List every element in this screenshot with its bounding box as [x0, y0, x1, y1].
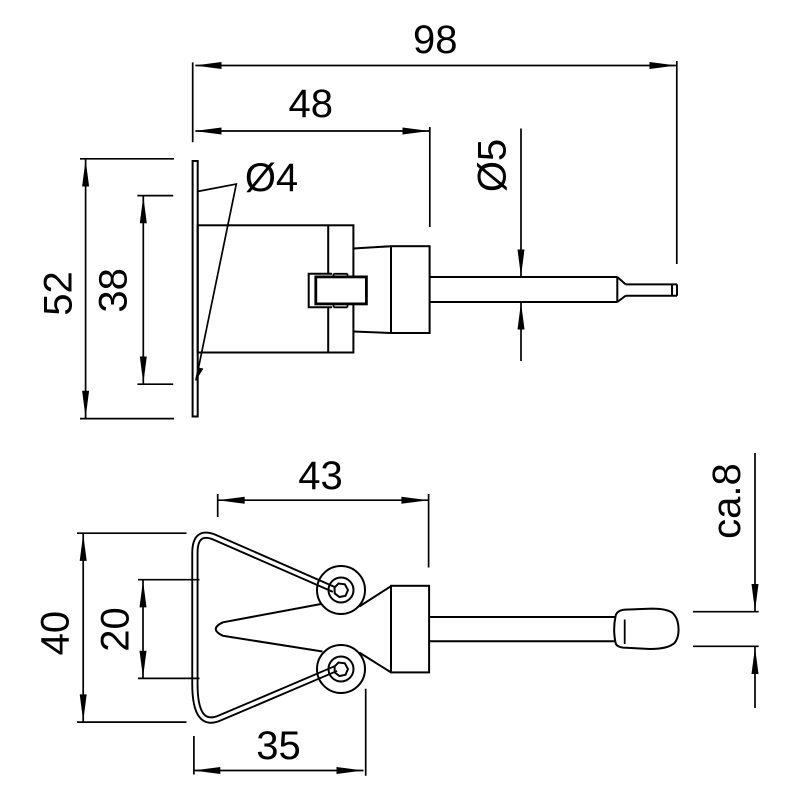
arrow leader dia4: [196, 367, 204, 380]
arrow dia5 up: [518, 303, 525, 330]
arrow 52 bottom: [82, 391, 89, 418]
lower eyelet: [317, 645, 365, 693]
dimension 35 ext left: [193, 736, 195, 775]
dimension 43 ext left: [217, 494, 219, 517]
arrow 40 bottom: [80, 694, 87, 721]
dimension 35 line: [193, 770, 363, 772]
dimension ca8 ext top: [693, 611, 759, 613]
dimension 38 line: [142, 196, 144, 385]
inner body line: [327, 225, 329, 352]
dimension ca8 line upper: [754, 453, 756, 611]
wire bail inner white: [195, 535, 336, 720]
dimension 20 ext bottom: [138, 677, 200, 679]
clamp button (bold rect): [316, 277, 367, 304]
dimension 52 ext bottom: [80, 418, 174, 420]
arrow 40 top: [80, 534, 87, 561]
arrow 48 right: [403, 128, 430, 135]
rod (bottom view): [429, 617, 615, 641]
arrow 43 right: [401, 497, 428, 504]
dimension 35 ext right: [365, 689, 367, 776]
dimension 48 line: [195, 130, 429, 132]
dimension 43 ext right: [428, 494, 430, 568]
arrow 52 top: [82, 160, 89, 187]
rod taper step: [617, 277, 625, 302]
dimension dia5 line lower: [520, 302, 522, 361]
leader dia4: [196, 184, 236, 380]
svg-text:40: 40: [33, 611, 77, 656]
dimension 98 ext left: [192, 62, 194, 142]
svg-text:48: 48: [289, 82, 334, 126]
dimension 40 ext top: [77, 532, 187, 534]
collar (side view): [391, 246, 430, 333]
dimension 43 line: [218, 499, 429, 501]
arrow 35 left: [193, 767, 220, 774]
dimension 98 line: [195, 65, 675, 67]
dimension 20 line: [142, 580, 144, 679]
svg-text:98: 98: [413, 18, 458, 62]
arrow 98 left: [195, 62, 222, 69]
arrow 38 bottom: [140, 357, 147, 384]
dimension 20 ext top: [138, 579, 200, 581]
arrow dia5 down: [518, 250, 525, 277]
dimension 52 line: [85, 159, 87, 419]
fork lower edge: [359, 653, 391, 673]
mounting plate (side view): [193, 161, 198, 417]
taper cone (side view): [353, 246, 391, 333]
arrow 20 top: [140, 580, 147, 607]
dimension 40 line: [82, 533, 84, 722]
wire bail (bottom view) outer stroke: [195, 535, 336, 720]
svg-text:43: 43: [298, 454, 343, 498]
svg-text:Ø5: Ø5: [471, 139, 515, 192]
bulb inner line: [624, 620, 626, 645]
body housing (side view): [198, 225, 354, 352]
svg-text:ca.8: ca.8: [705, 463, 749, 539]
svg-text:38: 38: [91, 268, 135, 313]
dimension 40 ext bottom: [77, 721, 187, 723]
svg-text:35: 35: [256, 724, 301, 768]
dimension 38 ext top: [137, 195, 173, 197]
rod thin tip: [626, 284, 677, 295]
dimension dia5 line upper: [520, 129, 522, 278]
dimension ca8 ext bottom: [693, 645, 759, 647]
dimension ca8 line lower: [754, 647, 756, 708]
dimension 98 ext right: [676, 61, 678, 264]
clamp notch top: [334, 274, 348, 277]
upper eyelet: [317, 566, 365, 614]
clamp bracket (thin C shape): [309, 274, 332, 308]
dimension 38 ext bottom: [137, 383, 173, 385]
dimension 52 ext top: [80, 158, 174, 160]
clamp notch bottom: [334, 304, 348, 307]
arrow 43 left: [218, 497, 245, 504]
arrow ca8 up: [752, 647, 759, 674]
svg-text:52: 52: [37, 271, 81, 316]
arrow 48 left: [195, 128, 222, 135]
svg-text:20: 20: [94, 607, 138, 652]
arrow 98 right: [650, 62, 677, 69]
rod (side view): [430, 277, 618, 302]
arrow 38 top: [140, 196, 147, 223]
collar (bottom view): [391, 586, 429, 673]
arrow ca8 down: [752, 584, 759, 611]
dimension 48 ext right: [429, 127, 431, 227]
arrow 35 right: [337, 767, 364, 774]
bulb tip (bottom view): [614, 609, 678, 649]
arrow 20 bottom: [140, 651, 147, 678]
fork upper edge: [359, 586, 391, 606]
svg-text:Ø4: Ø4: [245, 156, 298, 200]
fork V-slot (bottom view): [216, 604, 323, 652]
